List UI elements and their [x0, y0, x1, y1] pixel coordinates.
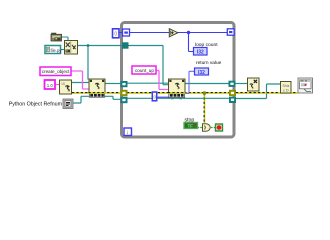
loop count indicator: [194, 48, 208, 56]
folder icon: [51, 33, 62, 41]
small python object node: [60, 80, 72, 94]
version constant: [45, 80, 56, 89]
wire refnum teal in: [73, 96, 90, 103]
tunnel session left: [122, 42, 129, 48]
wire pink box2 to small node: [56, 84, 61, 86]
wire node2 object out to tunnel: [185, 83, 230, 85]
svg-text:16: 16: [61, 82, 65, 86]
wire error overlay across python nodes: [89, 92, 186, 94]
wire green stop to or gate: [198, 127, 203, 129]
wire error main: [72, 92, 298, 94]
tunnel error right: [229, 90, 236, 96]
svg-text:create_object: create_object: [42, 69, 70, 74]
wire session teal: [77, 46, 169, 85]
python node 2: [169, 79, 186, 99]
svg-text:Python Object Refnum: Python Object Refnum: [9, 102, 63, 108]
wire error branch down to Or gate: [203, 91, 207, 123]
close python session node: [248, 78, 260, 91]
svg-text:stop: stop: [185, 118, 195, 124]
tunnel shift register right: [227, 29, 234, 35]
create_object string constant: [40, 67, 71, 76]
svg-text:i: i: [127, 130, 128, 136]
wire folder to open node: [61, 37, 68, 41]
wire refnum teal inside loop: [127, 97, 230, 99]
svg-text:return value: return value: [196, 60, 222, 66]
while loop: [122, 23, 235, 138]
tunnel object right upper: [229, 81, 236, 87]
svg-text:count_up: count_up: [135, 68, 154, 73]
tunnel error left: [121, 90, 128, 96]
svg-text:I32: I32: [197, 50, 204, 56]
wire path const to open node: [61, 49, 65, 51]
increment +1 node: [169, 29, 178, 37]
svg-text:0: 0: [154, 95, 157, 100]
wire object small node to node1: [71, 82, 90, 84]
string constant count_up: [132, 66, 156, 74]
return value indicator: [195, 68, 209, 76]
wire pink create_object: [71, 71, 90, 89]
wire node1 object out to left tunnel: [105, 83, 121, 85]
numeric constant 0 small in loop: [152, 92, 156, 101]
wire blue iteration chain: [120, 32, 123, 34]
wire blue return value: [185, 71, 195, 93]
tunnel object right lower: [229, 97, 236, 103]
iteration terminal i: [124, 128, 132, 136]
wire refnum teal out to tunnel: [105, 96, 122, 99]
wire refnum teal right of loop: [236, 84, 282, 99]
svg-text:loop count: loop count: [195, 42, 218, 48]
svg-text:c D: c D: [283, 88, 289, 92]
tunnel shift register left: [123, 29, 130, 36]
tunnel object left lower: [121, 97, 128, 103]
svg-text:0: 0: [114, 32, 117, 38]
open python session node: [65, 41, 78, 55]
wire tunnel to close node: [235, 83, 248, 85]
wire green or gate to condition terminal: [211, 127, 216, 129]
python object refnum icon: [63, 99, 73, 109]
path constant file.py: [45, 46, 62, 54]
loop condition terminal: [216, 124, 223, 131]
svg-text:TF: TF: [187, 124, 193, 129]
simple error handler node: [298, 78, 313, 93]
wire pink count_up: [156, 71, 169, 90]
wire blue constant to node2: [157, 96, 170, 98]
stop boolean terminal: [184, 123, 198, 129]
svg-text:1.0: 1.0: [47, 83, 54, 88]
numeric constant 0 at loop: [113, 29, 120, 38]
session close helper node: [281, 82, 292, 94]
or gate: [203, 124, 211, 131]
svg-text:I32: I32: [198, 70, 205, 76]
tunnel object left upper: [121, 81, 128, 87]
python node 1: [89, 79, 105, 97]
svg-text:file.py: file.py: [51, 48, 63, 53]
wire object tunnel to node2: [127, 82, 169, 84]
junction session: [87, 44, 90, 47]
